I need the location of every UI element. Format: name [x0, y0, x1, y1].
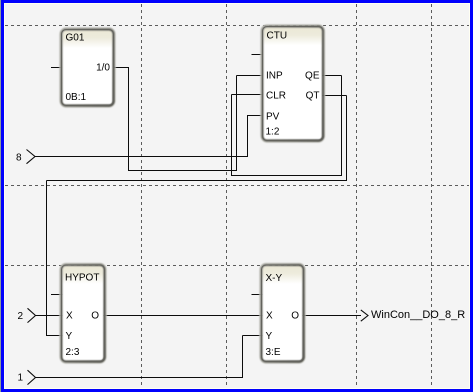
wire: QE output horizontal	[322, 75, 342, 77]
wire: INP riser vertical	[236, 76, 238, 172]
wire: X-Y Y pin horizontal	[243, 335, 264, 337]
svg-text:1:2: 1:2	[266, 127, 280, 138]
wire: QT left vertical down to HYPOT Y	[46, 181, 48, 337]
svg-text:3:E: 3:E	[266, 347, 281, 358]
wire: QT run horizontal to left	[47, 180, 347, 182]
wire: QT output horizontal	[322, 95, 347, 97]
svg-text:CLR: CLR	[266, 91, 286, 102]
wire: QE to CLR link horizontal	[232, 175, 343, 177]
svg-text:X: X	[266, 311, 273, 322]
wire: QT drop vertical	[346, 96, 348, 182]
grid vertical line 1	[141, 4, 143, 388]
wire: CLR pin horizontal	[232, 94, 264, 96]
node arrow: output chevron	[361, 310, 368, 321]
wire: G01 input stub	[51, 67, 62, 69]
grid horizontal line 2	[5, 185, 469, 187]
grid horizontal line 3	[5, 265, 469, 267]
node arrow: input 1 chevron	[28, 370, 36, 384]
svg-text:QE: QE	[305, 71, 320, 82]
grid vertical line 4	[431, 4, 433, 388]
wire: rail 1 riser vertical	[242, 336, 244, 379]
grid horizontal line 1	[5, 25, 469, 27]
svg-text:PV: PV	[266, 112, 280, 123]
svg-text:QT: QT	[306, 91, 320, 102]
svg-text:O: O	[91, 311, 99, 322]
wire: X-Y stub	[252, 294, 264, 296]
wire: PV pin horizontal	[247, 115, 263, 117]
node arrow: input 2 chevron	[28, 308, 36, 322]
wire: input rail 2 horizontal to HYPOT X	[36, 315, 64, 317]
grid vertical line 3	[356, 4, 358, 388]
wire: G01 output drop vertical	[128, 68, 130, 172]
svg-text:G01: G01	[66, 33, 85, 44]
wire: input rail 8 horizontal to PV riser	[35, 156, 248, 158]
wire: HYPOT stub	[51, 294, 63, 296]
block CTU (up counter)	[261, 25, 324, 142]
svg-text:0B:1: 0B:1	[66, 92, 87, 103]
svg-text:1: 1	[18, 373, 24, 384]
svg-text:1/0: 1/0	[96, 63, 110, 74]
grid vertical line 2	[226, 4, 228, 388]
block X-Y (subtraction function)	[260, 264, 305, 363]
svg-text:CTU: CTU	[267, 31, 288, 42]
svg-text:O: O	[291, 311, 299, 322]
wire: G01 run horizontal to INP riser	[129, 170, 238, 172]
wire: CTU top stub	[252, 54, 264, 56]
svg-text:Y: Y	[266, 331, 273, 342]
svg-text:2: 2	[18, 311, 24, 322]
svg-text:2:3: 2:3	[66, 347, 80, 358]
svg-text:X: X	[66, 311, 73, 322]
svg-text:HYPOT: HYPOT	[65, 273, 99, 284]
wire: PV riser vertical	[247, 116, 249, 158]
wire: G01 output horizontal	[113, 67, 129, 69]
window edge strip	[0, 0, 1, 392]
svg-text:Y: Y	[66, 331, 73, 342]
wire: QE drop vertical	[341, 76, 343, 177]
wire: CLR riser vertical	[231, 95, 233, 177]
wire: INP pin horizontal	[237, 75, 264, 77]
wire: HYPOT output to X-Y X input	[103, 315, 263, 317]
wire: HYPOT Y pin horizontal	[47, 335, 64, 337]
svg-text:X-Y: X-Y	[266, 273, 283, 284]
block HYPOT (hypotenuse function)	[60, 264, 106, 363]
wire: X-Y output horizontal	[302, 315, 361, 317]
svg-text:WinCon__DO_8_R: WinCon__DO_8_R	[371, 309, 465, 321]
block G01 (blink generator)	[60, 28, 115, 107]
wire: input rail 1 horizontal	[36, 377, 244, 379]
node arrow: input 8 chevron	[27, 150, 36, 164]
svg-text:INP: INP	[266, 71, 283, 82]
svg-text:8: 8	[16, 153, 22, 164]
